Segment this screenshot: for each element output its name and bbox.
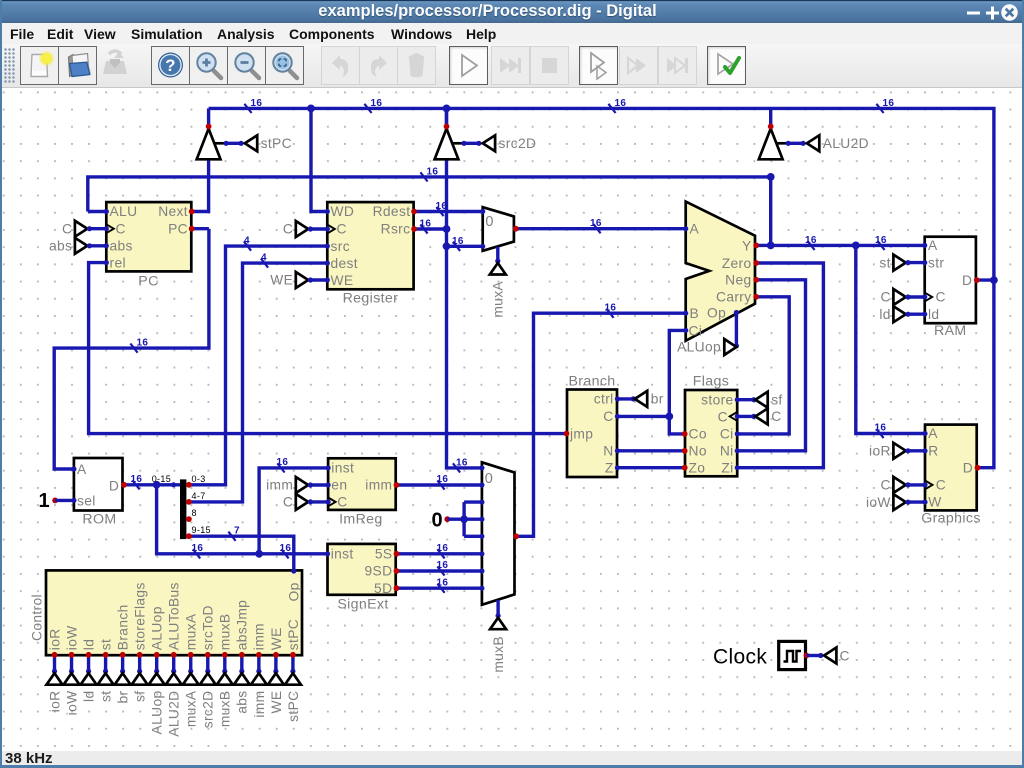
svg-text:Zero: Zero [722,256,752,271]
svg-text:W: W [928,495,941,510]
svg-text:A: A [928,238,938,253]
wire: ALU.Neg to Flags.Ni [737,280,805,451]
svg-text:muxB: muxB [218,614,233,651]
svg-text:C: C [840,649,850,664]
svg-text:5D: 5D [374,581,392,596]
svg-text:1: 1 [39,490,50,512]
svg-text:ROM: ROM [82,511,116,527]
svg-text:B: B [690,306,700,321]
muxB select + tunnel muxB [496,600,499,617]
svg-text:srcToD: srcToD [201,605,216,650]
svg-text:16: 16 [436,201,448,212]
svg-text:4: 4 [261,252,267,263]
display Graphics [925,425,977,511]
svg-text:ImReg: ImReg [339,511,383,527]
svg-text:Ni: Ni [720,444,734,459]
tunnel C from clock [824,648,836,664]
register ImReg [328,458,396,510]
svg-text:ALUToBus: ALUToBus [167,582,182,650]
svg-text:16: 16 [437,474,449,485]
wire: ALU.Y to RAM.A [756,244,925,247]
tunnel abs into PC [89,244,107,247]
wire: WD drop from bus to Register [311,108,327,211]
tunnel WE into Register [310,278,328,281]
wire: PC.Next to stPC driver [192,159,209,211]
svg-text:16: 16 [371,98,383,109]
tunnel ioW into Graphics.W [907,500,925,503]
svg-text:C: C [337,495,347,510]
svg-text:A: A [928,426,938,441]
tunnel imm into ImReg.en [310,483,329,486]
wire: ALU.Carry to Flags.Ci [737,297,789,434]
svg-text:0: 0 [485,214,493,230]
tunnel C into RAM.C [907,295,925,298]
wire: ALU.Zero to Flags.Zi [737,263,823,468]
svg-text:No: No [689,444,707,459]
svg-text:16: 16 [883,98,895,109]
tunnel C into Flags.C [737,415,755,418]
svg-text:C: C [936,478,946,493]
svg-text:4-7: 4-7 [192,491,206,501]
svg-text:16: 16 [131,474,143,485]
wire: Register.Rsrc to vertical [414,227,446,230]
tunnel st into RAM.str [907,261,925,264]
svg-text:ALU2D: ALU2D [823,136,869,151]
svg-text:stPC: stPC [286,691,301,722]
svg-text:muxB: muxB [218,691,233,728]
svg-text:muxB: muxB [491,636,506,673]
wire: Flags.No to Branch.N [617,449,684,452]
svg-text:abs: abs [49,239,72,254]
svg-text:en: en [331,478,347,493]
svg-text:D: D [962,273,972,288]
svg-text:ld: ld [879,307,890,322]
svg-text:0-15: 0-15 [152,474,171,484]
svg-text:inst: inst [331,461,354,476]
wire: Branch.jmp to PC.rel [89,263,567,434]
wire: splitter 0-3 to Register.src [188,246,327,485]
svg-text:br: br [651,392,664,407]
wire: Flags.Co to ALU.Ci and Branch.C [669,330,685,434]
tunnel ioR into Graphics.R [907,449,925,452]
svg-text:C: C [880,478,890,493]
svg-text:16: 16 [590,218,602,229]
svg-text:WE: WE [331,273,354,288]
tunnel ld into RAM.ld [907,313,925,316]
wire: instruction to ImReg.inst [259,468,328,554]
svg-text:PC: PC [168,221,188,236]
svg-text:src2D: src2D [499,136,537,151]
svg-text:16: 16 [615,98,627,109]
svg-text:stPC: stPC [261,136,292,151]
svg-text:C: C [62,221,72,236]
multiplexer muxA [483,207,514,251]
tunnel stPC [245,135,257,151]
svg-text:Op: Op [286,582,301,601]
svg-text:storeFlags: storeFlags [133,582,148,650]
svg-text:muxA: muxA [184,613,199,650]
svg-text:16: 16 [137,338,149,349]
svg-text:C: C [718,409,728,424]
tunnel ALU2D [807,135,819,151]
svg-text:PC: PC [138,273,158,289]
svg-text:Graphics: Graphics [921,510,981,526]
svg-text:SignExt: SignExt [337,596,388,612]
wire: SignExt.9SD to muxB [397,569,482,572]
svg-text:16: 16 [437,577,449,588]
svg-text:muxA: muxA [491,281,506,318]
svg-text:st: st [879,255,890,270]
svg-text:src: src [331,239,350,254]
svg-text:inst: inst [331,547,354,562]
svg-text:st: st [98,691,113,702]
svg-text:ld: ld [81,639,96,650]
svg-text:8: 8 [192,508,197,518]
svg-text:abs: abs [110,239,133,254]
svg-text:br: br [116,690,131,703]
svg-text:5S: 5S [375,547,393,562]
register file Register [327,202,413,289]
svg-text:D: D [963,460,973,475]
svg-text:16: 16 [456,458,468,469]
svg-text:sf: sf [133,691,148,702]
svg-text:ld: ld [81,691,96,702]
svg-text:A: A [690,221,700,236]
svg-text:16: 16 [875,235,887,246]
wire: main data bus (top, 16-bit) [209,108,994,467]
svg-text:rel: rel [110,255,126,270]
svg-text:?: ? [165,56,176,75]
svg-text:9SD: 9SD [365,564,393,579]
svg-text:WD: WD [331,204,355,219]
svg-text:WE: WE [269,691,284,714]
svg-text:4: 4 [244,235,250,246]
driver stPC (three-state buffer) [207,108,210,127]
svg-text:Ci: Ci [689,323,703,338]
svg-text:imm: imm [252,623,267,650]
svg-text:Op: Op [707,306,726,321]
svg-text:Co: Co [689,427,707,442]
svg-text:Ci: Ci [720,427,734,442]
svg-text:imm: imm [266,478,293,493]
svg-text:Rdest: Rdest [373,204,411,219]
wire: splitter 9-15 to Control.Op [188,536,293,569]
svg-text:jmp: jmp [569,427,593,442]
svg-text:Zi: Zi [721,460,733,475]
svg-text:Flags: Flags [693,374,729,390]
wire: SignExt.5D to muxB [397,587,482,590]
tunnel C into Register [310,227,328,230]
svg-text:abs: abs [235,691,250,714]
svg-text:ld: ld [928,307,939,322]
svg-text:Register: Register [343,291,399,307]
tunnel src2D [483,135,495,151]
svg-text:ctrl: ctrl [594,392,614,407]
svg-text:C: C [283,222,293,237]
wire: ALU result bus (second horizontal) [88,177,771,212]
svg-text:16: 16 [805,235,817,246]
wire: muxA in1 from vertical [447,245,483,248]
svg-text:ioW: ioW [866,495,891,510]
svg-text:ALU2D: ALU2D [167,691,182,737]
svg-text:C: C [116,221,126,236]
svg-text:C: C [603,409,613,424]
svg-text:7: 7 [234,526,240,537]
svg-text:ioR: ioR [47,628,62,650]
svg-text:ioW: ioW [64,625,79,650]
svg-text:C: C [283,495,293,510]
svg-text:C: C [771,409,781,424]
svg-text:store: store [701,392,733,407]
tunnel C into ImReg.C [310,500,329,503]
svg-text:ioW: ioW [64,691,79,716]
tunnel sf from Flags.store [737,398,755,401]
svg-text:WE: WE [269,627,284,650]
svg-text:sel: sel [77,494,96,509]
svg-text:ALUop: ALUop [677,340,721,355]
svg-text:absJmp: absJmp [235,600,250,650]
control unit Control [46,570,302,655]
svg-text:0-3: 0-3 [192,474,206,484]
tunnel br from Branch.ctrl [617,397,634,400]
svg-text:imm: imm [252,691,267,718]
wire: ROM.D to splitter and down [124,483,180,486]
wire: muxA output to ALU.A [516,227,686,230]
svg-text:16: 16 [437,543,449,554]
svg-text:Rsrc: Rsrc [381,222,411,237]
ALU Op input wire + tunnel ALUop [735,313,738,348]
svg-text:A: A [77,462,87,477]
wire: splitter 4-7 to Register.dest [188,263,327,502]
svg-text:0: 0 [432,510,443,532]
svg-text:ALUop: ALUop [150,691,165,735]
svg-text:dest: dest [331,256,358,271]
op-amp-shaped ALU [686,202,755,341]
memory ROM [74,458,123,511]
svg-text:16: 16 [192,543,204,554]
wire: vertical net bus-Rsrc-muxA-muxB [447,108,482,468]
multiplexer muxB [482,462,515,605]
svg-text:ioR: ioR [47,691,62,713]
svg-text:D: D [109,478,119,493]
driver src2D (three-state buffer) [445,108,448,127]
svg-text:sf: sf [771,392,782,407]
svg-text:Control: Control [30,594,45,641]
svg-text:C: C [880,290,890,305]
tunnel C into Graphics.C [907,483,925,486]
svg-text:16: 16 [251,98,263,109]
wire: Flags.Zo to Branch.Z [617,466,684,469]
svg-text:16: 16 [420,219,432,230]
svg-text:ioR: ioR [869,444,891,459]
svg-text:Y: Y [742,238,752,253]
svg-text:Next: Next [158,204,188,219]
svg-text:ALU: ALU [110,204,138,219]
svg-text:str: str [928,255,944,270]
svg-text:st: st [98,639,113,650]
svg-text:16: 16 [427,167,439,178]
wire: SignExt.5S to muxB [397,552,482,555]
wire: Register.Rdest to muxA in0 [414,210,483,213]
svg-text:C: C [936,290,946,305]
svg-text:16: 16 [452,236,464,247]
wire: muxB output to ALU.B [516,313,686,536]
svg-text:16: 16 [280,543,292,554]
svg-text:WE: WE [270,273,293,288]
svg-text:src2D: src2D [201,691,216,729]
svg-text:R: R [928,443,938,458]
wire: PC output to ROM.A [192,227,209,230]
svg-text:N: N [603,444,613,459]
svg-text:C: C [337,222,347,237]
svg-text:RAM: RAM [934,323,967,339]
tunnel C into PC [89,227,107,230]
svg-text:imm: imm [365,478,392,493]
svg-text:Branch: Branch [568,374,615,390]
svg-text:16: 16 [605,303,617,314]
svg-text:16: 16 [875,423,887,434]
wire: RAM.D to right bus [977,278,994,281]
driver ALU2D (three-state buffer) [769,108,772,127]
svg-text:16: 16 [437,560,449,571]
svg-text:Zo: Zo [689,460,706,475]
svg-text:Clock: Clock [713,646,767,669]
svg-text:Z: Z [605,460,614,475]
muxA select + tunnel muxA [496,247,499,262]
svg-text:muxA: muxA [184,690,199,727]
svg-text:9-15: 9-15 [192,525,211,535]
svg-text:Branch: Branch [116,604,131,650]
svg-text:16: 16 [277,457,289,468]
splitter 16-bit [180,479,186,539]
sign extender SignExt [328,544,396,595]
svg-text:stPC: stPC [286,619,301,650]
wire: ImReg.imm to muxB in1 [397,483,482,486]
svg-text:Carry: Carry [716,290,751,305]
memory RAM [925,237,976,324]
svg-text:Neg: Neg [725,273,751,288]
svg-text:ALUop: ALUop [150,606,165,650]
svg-text:0: 0 [485,471,493,487]
wire: Y bus down to Graphics.A [856,245,925,433]
register PC [106,202,191,271]
